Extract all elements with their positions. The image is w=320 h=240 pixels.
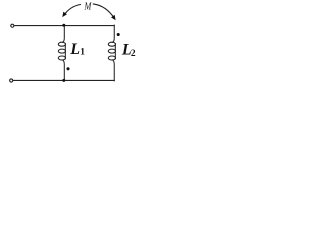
svg-text:2: 2 <box>131 49 136 59</box>
inductor L1 <box>58 26 65 81</box>
wire bottom <box>13 79 114 81</box>
polarity dot L1 <box>66 67 69 70</box>
svg-text:L: L <box>69 41 80 58</box>
svg-text:M: M <box>84 1 92 13</box>
arrowhead right <box>111 15 116 20</box>
label L1 <box>69 41 85 58</box>
terminal (top-left) <box>11 24 14 27</box>
junction (bottom of L1) <box>62 79 65 82</box>
mutual coupling arrow (left arc) <box>64 5 81 16</box>
polarity dot L2 <box>117 33 120 36</box>
inductor L2 <box>108 25 115 81</box>
arrowhead left <box>62 12 67 17</box>
mutual coupling arrow (right arc) <box>93 4 114 18</box>
junction (top of L1) <box>62 24 65 27</box>
wire top <box>14 25 114 27</box>
svg-text:1: 1 <box>80 48 85 58</box>
label L2 <box>121 41 136 59</box>
terminal (bottom-left) <box>10 79 13 82</box>
